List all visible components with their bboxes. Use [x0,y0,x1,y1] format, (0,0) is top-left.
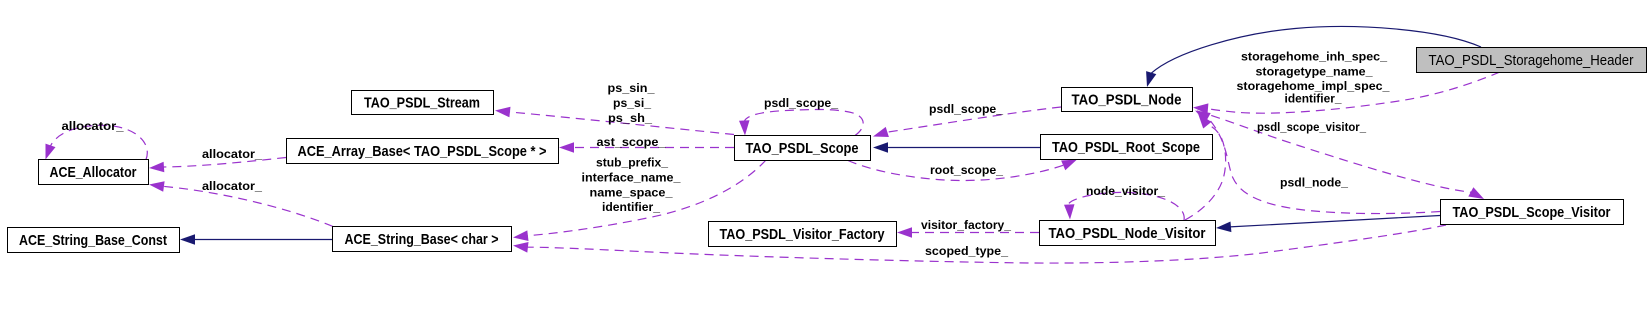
node ACE_String_Base< char > [333,227,512,252]
svg-text:root_scope_: root_scope_ [930,163,1003,177]
edge psdl_scope_ TAO_PSDL_Node to TAO_PSDL_Scope [873,107,1061,137]
svg-text:TAO_PSDL_Scope: TAO_PSDL_Scope [746,140,859,157]
inheritance TAO_PSDL_Root_Scope to TAO_PSDL_Scope [873,142,1040,153]
label identifier_ [602,200,660,214]
svg-text:allocator_: allocator_ [202,179,262,193]
label ps_sh_ [608,111,652,125]
edge psdl_scope_visitor_ TAO_PSDL_Node to TAO_PSDL_Scope_Visitor [1197,111,1484,199]
edge allocator_ ACE_String_Base to ACE_Allocator [149,181,333,226]
inheritance TAO_PSDL_Scope_Visitor to TAO_PSDL_Node_Visitor [1216,216,1440,233]
node TAO_PSDL_Storagehome_Header [1417,48,1647,73]
svg-text:psdl_node_: psdl_node_ [1280,176,1348,190]
svg-text:scoped_type_: scoped_type_ [925,244,1008,258]
label storagehome_inh_spec_ [1241,50,1387,64]
label ps_sin_ [608,81,655,95]
edge storagehome members TAO_PSDL_Storagehome_Header to TAO_PSDL_Node [1193,72,1500,114]
label allocator_ [202,147,262,161]
svg-text:ACE_Array_Base< TAO_PSDL_Scope: ACE_Array_Base< TAO_PSDL_Scope * > [298,143,547,160]
label visitor_factory_ [921,218,1011,232]
svg-text:identifier_: identifier_ [602,200,660,214]
inheritance TAO_PSDL_Storagehome_Header to TAO_PSDL_Node [1146,27,1481,87]
edge psdl_scope_ self-loop on TAO_PSDL_Scope [739,109,863,135]
label ps_si_ [613,96,651,110]
svg-text:ps_sin_: ps_sin_ [608,81,655,95]
svg-text:allocator_: allocator_ [202,147,262,161]
label scoped_type_ [925,244,1008,258]
label allocator_ [202,179,262,193]
svg-text:ACE_String_Base< char >: ACE_String_Base< char > [345,231,499,248]
svg-text:TAO_PSDL_Scope_Visitor: TAO_PSDL_Scope_Visitor [1453,204,1611,221]
svg-text:ps_sh_: ps_sh_ [608,111,652,125]
svg-text:ACE_Allocator: ACE_Allocator [50,164,137,181]
edge visitor_factory_ TAO_PSDL_Node_Visitor to TAO_PSDL_Visitor_Factory [897,227,1039,238]
svg-text:psdl_scope_visitor_: psdl_scope_visitor_ [1257,120,1366,134]
label psdl_scope_ [929,102,1003,116]
node TAO_PSDL_Stream [352,91,494,115]
node TAO_PSDL_Scope [735,136,871,161]
svg-text:visitor_factory_: visitor_factory_ [921,218,1011,232]
edge psdl_node_ TAO_PSDL_Scope_Visitor to TAO_PSDL_Node [1195,111,1440,214]
svg-text:psdl_scope_: psdl_scope_ [929,102,1003,116]
svg-text:storagehome_inh_spec_: storagehome_inh_spec_ [1241,50,1387,64]
node TAO_PSDL_Root_Scope [1041,135,1213,160]
label psdl_node_ [1280,176,1348,190]
label ast_scope_ [597,135,666,149]
edge stub_prefix_/interface_name_/name_space_/identifier_ TAO_PSDL_Scope to ACE_String_Base [513,160,766,241]
node TAO_PSDL_Scope_Visitor [1441,200,1624,225]
node ACE_Allocator [39,160,149,185]
svg-text:name_space_: name_space_ [590,186,673,200]
edge allocator_ ACE_Array_Base to ACE_Allocator [149,158,286,173]
edge allocator_ self-loop on ACE_Allocator [46,125,148,159]
svg-text:TAO_PSDL_Stream: TAO_PSDL_Stream [364,95,480,112]
svg-text:TAO_PSDL_Visitor_Factory: TAO_PSDL_Visitor_Factory [720,226,886,243]
svg-text:identifier_: identifier_ [1285,92,1342,106]
svg-text:TAO_PSDL_Node_Visitor: TAO_PSDL_Node_Visitor [1049,225,1206,242]
label psdl_scope_visitor_ [1257,120,1366,134]
edge TAO_PSDL_Node_Visitor to TAO_PSDL_Node [1185,114,1226,221]
inheritance ACE_String_Base to ACE_String_Base_Const [180,234,332,245]
svg-text:node_visitor_: node_visitor_ [1086,184,1165,198]
edge node_visitor_ self-loop on TAO_PSDL_Node_Visitor [1064,192,1184,220]
svg-text:storagetype_name_: storagetype_name_ [1256,64,1373,78]
label node_visitor_ [1086,184,1165,198]
svg-text:psdl_scope_: psdl_scope_ [764,96,838,110]
edge ps_sin_/ps_si_/ps_sh_ TAO_PSDL_Scope to TAO_PSDL_Stream [495,107,734,135]
svg-text:TAO_PSDL_Root_Scope: TAO_PSDL_Root_Scope [1052,139,1200,156]
svg-text:stub_prefix_: stub_prefix_ [596,156,668,170]
svg-text:interface_name_: interface_name_ [582,171,681,185]
label storagehome_impl_spec_ [1237,79,1390,93]
label root_scope_ [930,163,1003,177]
label allocator_ [62,119,124,133]
label interface_name_ [582,171,681,185]
svg-text:TAO_PSDL_Storagehome_Header: TAO_PSDL_Storagehome_Header [1429,52,1634,69]
svg-text:ps_si_: ps_si_ [613,96,651,110]
edge ast_scope_ TAO_PSDL_Scope to ACE_Array_Base [559,142,734,153]
node TAO_PSDL_Node_Visitor [1040,221,1216,246]
label psdl_scope_ [764,96,838,110]
svg-text:ACE_String_Base_Const: ACE_String_Base_Const [19,232,167,249]
edge root_scope_ TAO_PSDL_Scope to TAO_PSDL_Root_Scope [848,160,1077,181]
svg-text:ast_scope_: ast_scope_ [597,135,666,149]
node ACE_String_Base_Const [8,228,180,253]
label identifier_ [1285,92,1342,106]
node TAO_PSDL_Visitor_Factory [709,222,897,247]
node ACE_Array_Base< TAO_PSDL_Scope * > [287,139,559,164]
svg-text:TAO_PSDL_Node: TAO_PSDL_Node [1072,92,1182,109]
edge scoped_type_ TAO_PSDL_Scope_Visitor to ACE_String_Base [513,225,1446,263]
label name_space_ [590,186,673,200]
label stub_prefix_ [596,156,668,170]
node TAO_PSDL_Node [1062,88,1193,112]
svg-text:allocator_: allocator_ [62,119,124,133]
label storagetype_name_ [1256,64,1373,78]
